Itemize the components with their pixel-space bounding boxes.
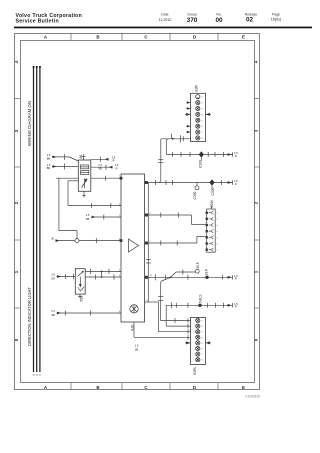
svg-text:370: 370 <box>187 17 198 24</box>
wire W4 relay right mid <box>91 165 113 170</box>
wire W1 relay left pin 1 <box>52 154 78 161</box>
svg-text:SB: SB <box>98 167 102 171</box>
wire W22 from K30 bottom to E2FL pin4 <box>134 322 191 337</box>
pin numbers E2R <box>202 97 203 140</box>
svg-text:16(61): 16(61) <box>271 17 281 21</box>
svg-text:30.P: 30.P <box>196 261 200 269</box>
svg-text:00: 00 <box>215 17 223 24</box>
svg-text:5: 5 <box>202 120 203 122</box>
svg-text:BN: BN <box>47 166 51 170</box>
svg-text:5: 5 <box>217 237 218 239</box>
svg-text:4: 4 <box>202 114 203 116</box>
wire W23c switch to K30 lower <box>85 274 121 280</box>
wire W8 pin y217 <box>92 215 122 220</box>
wire W19 drop to lamp cluster E2FL pin1 <box>158 277 190 323</box>
svg-text:1: 1 <box>202 97 203 99</box>
svg-text:K30: K30 <box>131 324 135 330</box>
svg-text:4: 4 <box>217 231 218 233</box>
lamp cluster E2FL <box>191 318 206 365</box>
svg-text:3: 3 <box>202 109 203 111</box>
wire W11 long run C300 upper <box>167 152 233 157</box>
svg-text:2: 2 <box>202 326 203 328</box>
svg-text:SB: SB <box>135 347 139 351</box>
svg-text:3: 3 <box>217 225 218 227</box>
svg-text:7: 7 <box>202 132 203 134</box>
svg-text:1.5: 1.5 <box>112 155 116 159</box>
header field labels <box>161 13 280 17</box>
ruler numbers right <box>254 60 259 341</box>
bus wire vertical beside K30 <box>146 183 151 303</box>
svg-text:No.: No. <box>216 13 221 17</box>
connector 30.P circle <box>195 269 199 273</box>
svg-text:5: 5 <box>202 343 203 345</box>
wire W7 branch to terminal 30 <box>59 178 77 238</box>
wire W12 drop to C300 run <box>166 139 168 155</box>
svg-text:E: E <box>242 35 245 40</box>
wire W21 from bus down to E2FL pin3 <box>145 302 191 332</box>
wire W6 coil pin run to K30 <box>68 181 121 208</box>
relay K1 top stub <box>82 154 86 160</box>
wire W2 relay left pin 2 <box>52 164 78 170</box>
E2R arrow pins row4 <box>185 113 211 116</box>
wire W18 branch to 30.P <box>171 270 196 278</box>
svg-text:BN: BN <box>47 157 51 161</box>
svg-text:E2FL: E2FL <box>193 366 197 374</box>
svg-text:B: B <box>96 35 99 40</box>
svg-text:1: 1 <box>217 213 218 215</box>
splice OLS <box>198 304 201 307</box>
pin numbers K30 left <box>119 175 121 313</box>
C2M pin forks <box>209 211 214 251</box>
svg-text:E: E <box>242 385 245 390</box>
header title <box>16 13 83 25</box>
ruler tick marks <box>14 33 259 390</box>
E2R left pin stubs <box>187 101 191 133</box>
svg-text:C: C <box>144 35 148 40</box>
svg-text:3: 3 <box>202 332 203 334</box>
wire link x101 <box>101 271 103 277</box>
svg-text:1.5: 1.5 <box>51 273 55 277</box>
wire W16 to connector C2M pin5 <box>145 236 207 245</box>
node square at K30 pin y240 <box>120 239 123 242</box>
rotated component labels <box>79 84 215 374</box>
svg-text:1.5: 1.5 <box>47 163 51 167</box>
svg-text:C2M: C2M <box>210 200 214 207</box>
svg-text:86: 86 <box>79 155 83 159</box>
svg-text:SB: SB <box>86 217 90 221</box>
connector C2M <box>207 205 216 252</box>
bus bar top caps <box>33 66 41 68</box>
bus bar end labels <box>32 375 42 377</box>
node square at K30 pin y177 <box>120 177 123 180</box>
svg-text:2: 2 <box>202 103 203 105</box>
ruler letters top <box>44 35 245 40</box>
svg-text:DIRECTION INDICATOR LIGHT: DIRECTION INDICATOR LIGHT <box>27 287 32 346</box>
wire W23a switch feed <box>57 274 76 280</box>
header rule <box>14 27 312 29</box>
svg-text:10: 10 <box>150 275 153 277</box>
node square K30 right y277 <box>145 276 148 279</box>
node square bus y182 <box>145 181 148 184</box>
svg-text:1.5: 1.5 <box>47 153 51 157</box>
svg-text:18.F: 18.F <box>205 269 209 276</box>
svg-text:6: 6 <box>202 126 203 128</box>
E2FL pin ticks <box>187 318 189 339</box>
wire W23b switch to K30 upper <box>85 269 121 274</box>
svg-text:1.5: 1.5 <box>51 309 55 313</box>
C2M left edge pin squares <box>206 212 208 251</box>
relay K1 <box>78 160 91 191</box>
wire W24 ground run <box>57 311 122 316</box>
svg-text:8: 8 <box>202 138 203 140</box>
svg-text:D: D <box>193 35 196 40</box>
svg-text:R: R <box>116 167 118 171</box>
K30 sound unit M <box>130 305 138 313</box>
svg-text:6: 6 <box>202 349 203 351</box>
wire W5 coil feed left <box>56 176 121 181</box>
node square K30 right y243 <box>145 242 148 245</box>
pin numbers K30 right <box>146 213 153 302</box>
E2FL arrow pins row4 <box>185 341 211 344</box>
svg-text:C300: C300 <box>211 187 215 195</box>
svg-text:0.8LS: 0.8LS <box>199 294 203 303</box>
splice node A <box>75 239 79 243</box>
svg-text:C: C <box>144 385 148 390</box>
frame inner border (drawing area) <box>21 41 255 383</box>
node square K30 right y215 <box>145 214 148 217</box>
wire W14 long run C300 lower <box>145 180 233 185</box>
lamp cluster E2R <box>191 93 206 141</box>
svg-text:R: R <box>235 182 237 186</box>
svg-text:R: R <box>113 159 115 163</box>
svg-text:SB: SB <box>51 313 55 317</box>
svg-text:R: R <box>235 154 237 158</box>
wire W15 to connector C2M pin3 <box>145 213 207 225</box>
svg-text:1.5: 1.5 <box>98 163 102 167</box>
K30 left pin ticks <box>119 206 121 314</box>
wire W20 OLS run <box>166 302 232 326</box>
ground bus bar 31 <box>39 67 41 372</box>
svg-text:A: A <box>44 35 48 40</box>
svg-text:1.5: 1.5 <box>115 163 119 167</box>
switch S02 <box>75 269 85 299</box>
K30 amplifier triangle <box>129 239 139 252</box>
svg-text:2: 2 <box>217 219 218 221</box>
wire W10 feed to lamp cluster <box>161 134 191 142</box>
E2R lamps <box>196 95 200 140</box>
ruler numbers left <box>14 60 19 341</box>
svg-text:Date: Date <box>161 13 168 17</box>
power bus bar 30 <box>33 67 35 372</box>
wire W7b terminal 30 run <box>56 238 122 243</box>
svg-text:6: 6 <box>217 244 218 246</box>
svg-text:502: 502 <box>79 296 83 302</box>
svg-text:E2R: E2R <box>195 84 199 91</box>
svg-text:R: R <box>235 305 237 309</box>
connector C300 branch circle <box>195 183 199 190</box>
svg-text:1.5: 1.5 <box>135 344 139 348</box>
svg-text:4: 4 <box>202 337 203 339</box>
splice 18.F <box>205 276 208 279</box>
wire W13 riser from C300 run <box>158 139 163 183</box>
flasher control unit K30 <box>121 174 145 322</box>
svg-text:7: 7 <box>217 250 218 252</box>
svg-text:Group: Group <box>187 13 197 17</box>
svg-text:C3060838: C3060838 <box>245 395 260 399</box>
wire W9 coil bottom stub <box>82 191 86 197</box>
svg-text:Service Bulletin: Service Bulletin <box>16 19 59 25</box>
svg-text:1: 1 <box>202 321 203 323</box>
svg-text:7: 7 <box>202 354 203 356</box>
svg-text:C300: C300 <box>199 160 203 168</box>
power bus bar 15 <box>36 67 38 372</box>
E2FL lamps <box>196 318 200 361</box>
svg-text:R: R <box>235 277 237 281</box>
svg-text:8: 8 <box>202 360 203 362</box>
header field values <box>159 17 282 24</box>
pin numbers E2FL <box>202 321 203 362</box>
svg-text:D: D <box>193 385 196 390</box>
svg-text:1.5: 1.5 <box>86 213 90 217</box>
svg-text:GN: GN <box>51 276 55 280</box>
wire W18 main run <box>145 274 233 280</box>
pin numbers C2M <box>217 213 218 252</box>
svg-text:C300: C300 <box>193 191 197 199</box>
svg-text:WIRING DIAGRAM ON: WIRING DIAGRAM ON <box>27 101 32 146</box>
svg-text:Page: Page <box>272 13 280 17</box>
connector C300 lower diamond <box>209 179 214 185</box>
wire W3 relay right top <box>91 157 109 162</box>
connector C300 upper <box>199 151 204 157</box>
svg-text:30: 30 <box>51 237 54 241</box>
svg-text:A: A <box>44 385 48 390</box>
svg-text:11.2010: 11.2010 <box>159 18 172 22</box>
ruler letters bottom <box>44 385 245 390</box>
svg-text:02: 02 <box>246 17 254 24</box>
tiny labels <box>47 151 238 351</box>
frame outer border <box>15 34 260 390</box>
svg-text:31: 31 <box>39 375 42 377</box>
svg-text:B: B <box>96 385 99 390</box>
